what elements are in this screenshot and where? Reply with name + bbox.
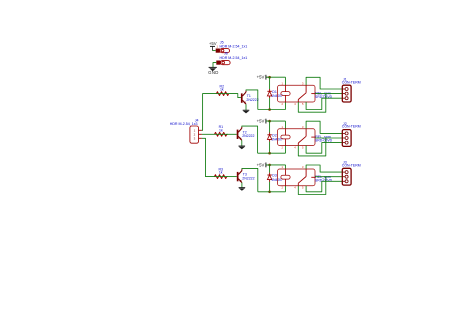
svg-text:HDR M-2.54_1x1: HDR M-2.54_1x1 <box>220 56 248 60</box>
svg-text:HDR M-2.54_1x1: HDR M-2.54_1x1 <box>220 44 248 48</box>
relay REL2 switch <box>305 129 307 137</box>
wire J4 to resistor R3 <box>214 176 227 178</box>
svg-text:HDR M-2.54_1x3: HDR M-2.54_1x3 <box>170 122 198 126</box>
diode D3 <box>269 173 271 175</box>
wire diode top D2 <box>269 121 271 133</box>
transistor T2 <box>237 130 239 139</box>
relay REL2 <box>278 129 315 146</box>
svg-text:1k: 1k <box>219 128 223 132</box>
wire +5V to header J5 <box>213 50 216 52</box>
svg-text:+5V: +5V <box>209 41 217 46</box>
node +5V junction D1 top <box>268 76 271 79</box>
svg-text:CON-TERM: CON-TERM <box>342 125 361 129</box>
wire collector T3 <box>242 168 258 191</box>
transistor T1 <box>241 93 243 102</box>
relay REL3 switch <box>305 169 307 177</box>
ground T1 emitter <box>243 109 250 111</box>
wire COM outer route row T1 <box>298 94 326 113</box>
connector J4 pin stubs <box>199 129 202 131</box>
wire emitter T1 <box>245 104 247 110</box>
relay REL1 coil <box>281 92 290 96</box>
svg-text:1k: 1k <box>219 171 223 175</box>
relay REL2 coil <box>281 135 290 139</box>
svg-text:+5V: +5V <box>257 75 265 80</box>
svg-text:+5V: +5V <box>257 162 265 167</box>
wire J4 pin1 net <box>202 94 217 131</box>
wire collector T2 <box>242 126 258 153</box>
wire J4 pin3 net <box>202 138 215 176</box>
wire +5V rail row T2 <box>266 120 286 122</box>
relay REL3 coil <box>281 175 290 179</box>
wire NC top route row T1 <box>306 77 342 89</box>
relay REL3 <box>278 169 315 186</box>
diode D1 <box>269 89 271 91</box>
ground T2 emitter <box>239 145 246 147</box>
wire diode top D3 <box>269 165 271 173</box>
wire +5V rail row T3 <box>266 164 286 166</box>
wire emitter T3 <box>241 183 243 188</box>
wire base T2 <box>227 133 237 135</box>
wire NO inner route row T3 <box>306 181 342 192</box>
wire emitter T2 <box>241 140 243 146</box>
svg-text:SRD-05VD: SRD-05VD <box>315 138 333 142</box>
wire J4 to resistor R2 <box>216 93 228 95</box>
svg-text:CON-TERM: CON-TERM <box>342 163 361 167</box>
svg-text:2N2222: 2N2222 <box>242 177 254 181</box>
wire base T1 <box>229 94 241 98</box>
svg-text:1k: 1k <box>220 88 224 92</box>
wire NC top route row T3 <box>306 165 342 172</box>
wire relay NO-pin to terminal pin2 row T3 <box>315 176 342 178</box>
wire relay NO-pin to terminal pin2 row T2 <box>315 137 342 139</box>
wire collector to coil row T1 <box>258 109 286 111</box>
node junction D2 bottom <box>268 152 271 155</box>
wire diode bottom D2 <box>269 142 271 154</box>
wire NC top route row T2 <box>306 121 342 133</box>
wire J4 to resistor R1 <box>215 133 228 135</box>
svg-text:GND: GND <box>208 70 218 75</box>
wire diode top D1 <box>269 77 271 89</box>
wire collector to coil row T3 <box>258 191 286 193</box>
wire J4 pin2 net <box>202 133 215 135</box>
wire diode bottom D3 <box>269 182 271 192</box>
resistor R2 <box>216 92 228 96</box>
svg-text:CON-TERM: CON-TERM <box>342 80 361 84</box>
svg-text:2N2222: 2N2222 <box>246 98 258 102</box>
ground flag GND <box>209 66 217 68</box>
resistor R3 <box>214 175 226 179</box>
node junction D3 bottom <box>268 191 271 194</box>
wire NO inner route row T1 <box>306 98 342 109</box>
resistor R1 <box>215 132 227 136</box>
wire +5V rail row T1 <box>266 76 286 78</box>
wire COM outer route row T3 <box>298 177 326 195</box>
node junction D1 bottom <box>268 108 271 111</box>
transistor T3 <box>237 172 239 181</box>
svg-text:SRD-05VD: SRD-05VD <box>315 179 333 183</box>
relay REL1 switch <box>305 85 307 93</box>
node +5V junction D2 top <box>268 120 271 123</box>
wire relay NO-pin to terminal pin2 row T1 <box>315 93 342 95</box>
ground T3 emitter <box>239 187 246 189</box>
wire collector to coil row T2 <box>258 152 286 154</box>
diode D2 <box>269 133 271 135</box>
relay REL1 <box>278 85 315 102</box>
wire COM outer route row T2 <box>298 138 326 156</box>
wire base T3 <box>227 176 237 178</box>
wire J6 to GND <box>213 63 216 68</box>
wire diode bottom D1 <box>269 98 271 109</box>
wire NO inner route row T2 <box>306 143 342 154</box>
svg-text:+5V: +5V <box>257 119 265 124</box>
svg-text:2N2222: 2N2222 <box>242 134 254 138</box>
node +5V junction D3 top <box>268 164 271 167</box>
wire collector T1 <box>246 90 258 110</box>
